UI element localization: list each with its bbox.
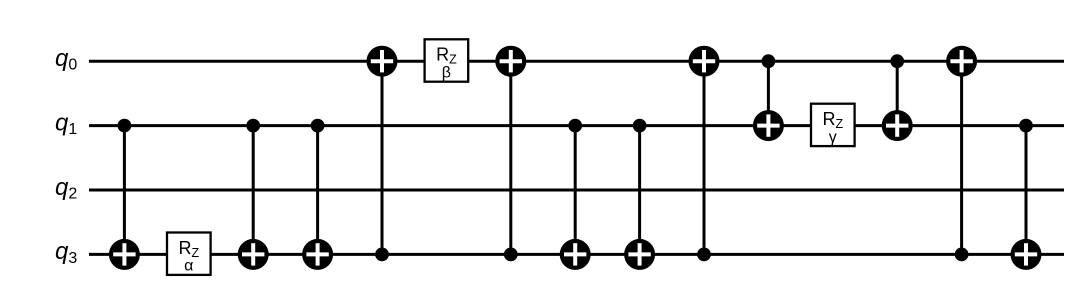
svg-text:β: β	[442, 64, 451, 81]
wire: CNOT2 vertical connector (control q1 to target q3)	[252, 126, 255, 255]
wire: CNOT8 vertical connector (control q3 to target q0)	[703, 61, 706, 254]
wire q0	[89, 60, 1064, 63]
wire: CNOT5 vertical connector (control q3 to target q0)	[509, 61, 512, 254]
qubit label q0	[55, 45, 77, 74]
wire: CNOT11 vertical connector (control q3 to target q0)	[960, 61, 963, 254]
CNOT7 target (XOR) on q3	[624, 239, 655, 270]
CNOT5 control dot on q3	[504, 248, 518, 262]
qubit label q3	[55, 238, 77, 267]
CNOT1 control dot on q1	[118, 119, 132, 133]
CNOT4 target (XOR) on q0	[367, 46, 398, 77]
wire: CNOT9 vertical connector (control q0 to target q1)	[767, 61, 770, 125]
CNOT10 control dot on q0	[890, 54, 904, 68]
qubit label q1	[55, 109, 77, 138]
CNOT1 target (XOR) on q3	[109, 239, 140, 270]
gate Rz(gamma) on q1	[811, 104, 855, 146]
wire: CNOT7 vertical connector (control q1 to target q3)	[638, 126, 641, 255]
CNOT6 control dot on q1	[568, 119, 582, 133]
wire: CNOT10 vertical connector (control q0 to target q1)	[896, 61, 899, 125]
CNOT3 control dot on q1	[311, 119, 325, 133]
wire q2	[89, 189, 1064, 192]
CNOT3 target (XOR) on q3	[302, 239, 333, 270]
CNOT5 target (XOR) on q0	[495, 46, 526, 77]
CNOT2 target (XOR) on q3	[238, 239, 269, 270]
CNOT12 target (XOR) on q3	[1011, 239, 1042, 270]
wire: CNOT4 vertical connector (control q3 to target q0)	[381, 61, 384, 254]
CNOT4 control dot on q3	[375, 248, 389, 262]
gate Rz(alpha) on q3	[167, 233, 211, 275]
CNOT10 target (XOR) on q1	[882, 110, 913, 141]
wire: CNOT6 vertical connector (control q1 to target q3)	[574, 126, 577, 255]
gate Rz(beta) on q0	[425, 39, 469, 81]
CNOT12 control dot on q1	[1019, 119, 1033, 133]
svg-text:α: α	[184, 258, 193, 275]
wire q3	[89, 253, 1064, 256]
qubit label q2	[55, 174, 77, 203]
CNOT8 target (XOR) on q0	[689, 46, 720, 77]
CNOT11 control dot on q3	[955, 248, 969, 262]
CNOT8 control dot on q3	[697, 248, 711, 262]
CNOT9 target (XOR) on q1	[753, 110, 784, 141]
wire: CNOT12 vertical connector (control q1 to target q3)	[1025, 126, 1028, 255]
svg-text:γ: γ	[829, 129, 837, 146]
CNOT6 target (XOR) on q3	[560, 239, 591, 270]
CNOT2 control dot on q1	[246, 119, 260, 133]
CNOT7 control dot on q1	[633, 119, 647, 133]
wire q1	[89, 124, 1064, 127]
wire: CNOT3 vertical connector (control q1 to target q3)	[316, 126, 319, 255]
wire: CNOT1 vertical connector (control q1 to target q3)	[123, 126, 126, 255]
CNOT9 control dot on q0	[762, 54, 776, 68]
CNOT11 target (XOR) on q0	[946, 46, 977, 77]
